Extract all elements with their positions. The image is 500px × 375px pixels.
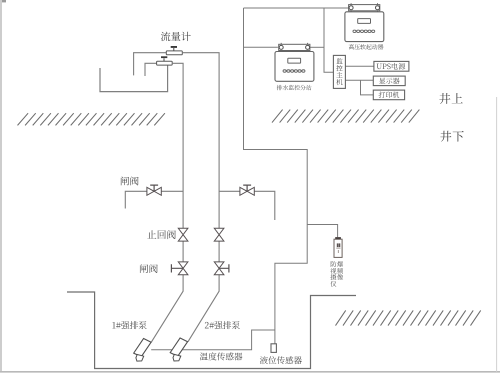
wire: branch down to printer — [361, 80, 374, 95]
monitor host box 监控主机 — [333, 55, 345, 88]
wire: branch to substation left terminal — [244, 46, 278, 48]
gate valve GV1 side handle — [171, 264, 183, 272]
wire: junction drop to monitor host — [324, 8, 333, 72]
wire: host to UPS — [345, 65, 374, 67]
label 2#强排泵 — [205, 321, 240, 329]
flow meter FM2 cap — [161, 56, 167, 58]
flow meter FM2 stem — [163, 58, 165, 61]
scan artifact: top-left speck — [2, 0, 6, 2]
gate valve GV2 side handle — [219, 264, 229, 272]
scan artifact: right edge line — [496, 97, 498, 372]
gate valve GV-L (left branch) bowtie — [147, 187, 161, 195]
explosion-proof camera body — [334, 239, 342, 257]
wire: substation right terminal to junction — [310, 46, 324, 48]
gate valve GV-R stem and handle — [243, 185, 251, 191]
temperature sensor label 温度传感器 — [200, 352, 242, 360]
flow meter FM2 (lower) body — [157, 61, 173, 65]
check valve CV1 on pipe #1 — [178, 228, 188, 241]
check valve label 止回阀 — [147, 230, 175, 239]
gate valve GV1 on pipe #1 bowtie — [178, 262, 188, 275]
flow meter FM1 (upper) body — [166, 51, 182, 55]
label 显示器 — [379, 78, 399, 84]
pipe from lower flow meter to sump right drop — [145, 63, 157, 76]
label 1#强排泵 — [112, 321, 146, 329]
check valve CV2 on pipe #2 — [214, 228, 224, 241]
label 防爆视频摄像仪 (vertical rows) — [330, 261, 343, 287]
printer box — [373, 90, 404, 100]
label 排水监控分站 — [277, 85, 312, 90]
wire: host to display — [345, 79, 373, 81]
flow meter FM1 cap — [171, 46, 177, 48]
ground hatching (pump chamber roof, lower right) — [336, 310, 481, 325]
right bypass branch pipe with drop stub — [219, 191, 275, 220]
flow meter FM1 label 流量计 — [161, 32, 191, 41]
liquid level sensor label 液位传感器 — [260, 356, 302, 364]
sump (suction tank) outline — [100, 65, 168, 92]
drainage monitoring substation 排水监控分站 device — [275, 43, 314, 81]
label 高压软起动器 — [349, 44, 384, 49]
gate valve GV-R (right branch) bowtie — [240, 187, 254, 195]
wire: surface trunk to soft starter — [244, 7, 349, 9]
camera lens marks — [336, 243, 340, 253]
discharge pipe #1 (from FM2 down to pump 1) — [151, 63, 183, 342]
pump P1 foot — [136, 355, 144, 362]
wire: main monitoring cable (shaft trunk down to level sensor) — [244, 8, 308, 344]
wire: camera tap — [307, 225, 337, 238]
pump chamber outline — [67, 292, 356, 369]
gate valve label 闸阀 (left branch) — [121, 176, 139, 185]
pump P2 body (2#强排泵) — [170, 338, 187, 356]
gate valve GV-L stem and handle — [150, 185, 158, 191]
wire/pipe from upper flow meter to sump left drop — [134, 53, 167, 76]
pump P1 body (1#强排泵) — [134, 339, 151, 357]
display box — [373, 76, 405, 86]
liquid level sensor body — [271, 344, 276, 353]
gate valve label 闸阀 (lower) — [140, 264, 158, 273]
label UPS电源 — [377, 63, 406, 70]
flow meter FM1 stem — [173, 48, 175, 51]
label 井下 (below shaft) — [440, 131, 463, 142]
wire: temperature sensors to monitoring cable — [151, 330, 275, 350]
high-voltage soft starter 高压软起动器 device — [345, 3, 384, 41]
label 打印机 — [379, 92, 400, 98]
label 井上 (above shaft) — [439, 93, 462, 104]
pump P2 foot — [173, 354, 181, 361]
discharge pipe #2 (from FM1 down to pump 2) — [182, 53, 219, 342]
gate valve GV2 on pipe #2 bowtie — [214, 262, 224, 275]
label 监控主机 (vertical) — [336, 58, 342, 85]
ground hatching (surface, right of shaft) — [272, 110, 419, 123]
scan artifact: left edge line — [0, 0, 2, 372]
camera top cap — [335, 237, 341, 239]
left bypass branch pipe with drop stub — [125, 191, 183, 208]
UPS power box — [374, 61, 409, 71]
ground hatching (surface, left of shaft) — [18, 113, 165, 125]
scan artifact: bottom edge line — [0, 371, 500, 373]
